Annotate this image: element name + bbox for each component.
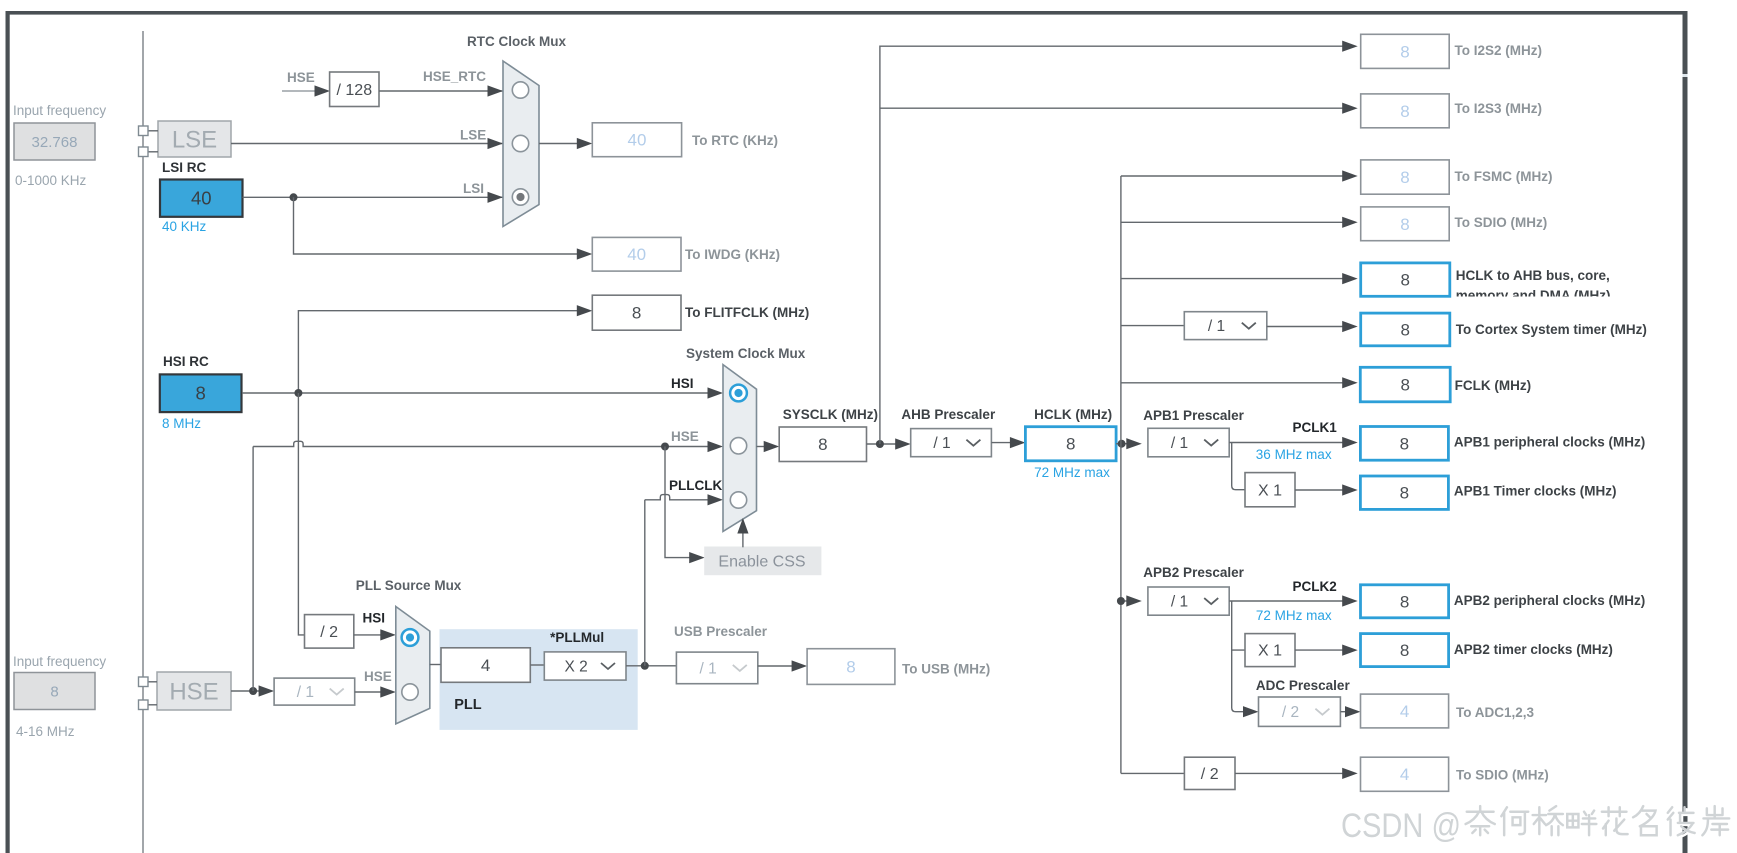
arrowhead: into SYSCLK box bbox=[764, 441, 780, 452]
svg-text:HSE: HSE bbox=[169, 678, 218, 705]
output box To USB value 8 bbox=[807, 649, 895, 685]
svg-text:HSE_RTC: HSE_RTC bbox=[423, 69, 486, 84]
svg-text:To SDIO (MHz): To SDIO (MHz) bbox=[1456, 768, 1549, 783]
arrowhead: HSI into system mux bbox=[708, 387, 724, 398]
svg-text:HSE: HSE bbox=[287, 70, 315, 85]
arrowhead: into HSE /1 dropdown bbox=[259, 685, 275, 696]
Enable CSS button bbox=[704, 547, 821, 576]
svg-text:Input frequency: Input frequency bbox=[13, 654, 106, 669]
arrowhead: HSI into PLL mux bbox=[380, 629, 396, 640]
label: HSE (top, feeds /128) bbox=[287, 70, 315, 85]
wire: PLL mux to PLLM box bbox=[430, 664, 441, 666]
frame: scrollbar notch on right border bbox=[1683, 74, 1688, 77]
dropdown: USB prescaler /1 (disabled) bbox=[676, 652, 757, 684]
arrowhead: into APB2 peripheral box bbox=[1342, 595, 1358, 606]
label: PCLK1 bbox=[1293, 420, 1338, 435]
junction: SYSCLK to I2S branch bbox=[876, 440, 884, 448]
svg-text:AHB Prescaler: AHB Prescaler bbox=[901, 407, 996, 422]
svg-text:PCLK1: PCLK1 bbox=[1293, 420, 1338, 435]
HSI RC box 8 bbox=[160, 374, 242, 412]
svg-text:72 MHz max: 72 MHz max bbox=[1256, 608, 1332, 623]
svg-text:HSE: HSE bbox=[671, 429, 699, 444]
arrowhead: into APB1 peripheral box bbox=[1342, 437, 1358, 448]
wire: checkbox stub 2 to LSE bbox=[148, 151, 158, 153]
svg-text:To USB (MHz): To USB (MHz) bbox=[902, 662, 990, 677]
wire: X1 to APB1 timer box bbox=[1295, 489, 1345, 491]
svg-text:8 MHz: 8 MHz bbox=[162, 416, 201, 431]
label: HSE (system mux input) bbox=[671, 429, 699, 444]
wire: checkbox stub 2 to HSE bbox=[148, 704, 157, 706]
label: 8 MHz bbox=[162, 416, 201, 431]
label: 36 MHz max bbox=[1256, 447, 1332, 462]
svg-text:ADC Prescaler: ADC Prescaler bbox=[1256, 678, 1351, 693]
svg-text:8: 8 bbox=[1401, 271, 1410, 290]
radio: LSI input (selected) bbox=[512, 189, 528, 205]
label: To I2S2 (MHz) bbox=[1455, 43, 1543, 58]
multiplier box X 1 (APB2) bbox=[1245, 634, 1295, 667]
radio: PLL HSE input bbox=[402, 684, 418, 700]
label: PLL Source Mux bbox=[356, 578, 462, 593]
svg-text:8: 8 bbox=[846, 658, 855, 677]
SYSCLK box 8 bbox=[779, 427, 866, 462]
svg-text:RTC Clock Mux: RTC Clock Mux bbox=[467, 34, 567, 49]
arrowhead: into To FSMC box bbox=[1342, 170, 1358, 181]
wire: HCLK to APB1 prescaler bbox=[1116, 443, 1129, 445]
svg-text:Enable CSS: Enable CSS bbox=[718, 554, 805, 571]
junction: HSE to CSS branch bbox=[661, 443, 669, 451]
arrowhead: into To ADC box bbox=[1345, 706, 1361, 717]
wire: HSE /1 to PLL mux bbox=[355, 691, 383, 693]
wire: PLLMul out to USB prescaler bbox=[626, 665, 676, 667]
arrowhead: LSI into RTC mux bbox=[488, 192, 504, 203]
svg-text:/ 1: / 1 bbox=[1171, 435, 1188, 452]
junction: HSE branch bbox=[249, 687, 257, 695]
svg-text:8: 8 bbox=[1400, 592, 1409, 611]
svg-text:8: 8 bbox=[1400, 42, 1409, 61]
wire: HSI branch up to FLITFCLK bbox=[298, 311, 579, 393]
wire: bus to FSMC bbox=[1121, 175, 1345, 177]
arrowhead: PLLCLK into system mux bbox=[708, 494, 724, 505]
svg-text:8: 8 bbox=[1401, 376, 1410, 395]
radio: system mux PLLCLK bbox=[730, 492, 746, 508]
output box APB1 peripheral value 8 bbox=[1360, 427, 1448, 461]
frame: top border bbox=[6, 11, 1687, 15]
wire: HSE stub into /128 bbox=[282, 90, 317, 92]
svg-text:HSI RC: HSI RC bbox=[163, 354, 209, 369]
label: APB1 peripheral clocks (MHz) bbox=[1454, 435, 1645, 450]
wire: HSE out to /1 prescaler bbox=[231, 690, 261, 692]
divider box /2 (SDIO) bbox=[1184, 757, 1235, 789]
PLLM value box 4 bbox=[441, 648, 530, 683]
svg-text:/ 1: / 1 bbox=[297, 684, 314, 701]
svg-text:PLL: PLL bbox=[454, 697, 482, 713]
arrowhead: into AHB prescaler bbox=[895, 438, 911, 449]
svg-text:PLLCLK: PLLCLK bbox=[669, 478, 722, 493]
LSE source box bbox=[158, 121, 231, 157]
label: PLL bbox=[454, 697, 482, 713]
label: To FLITFCLK (MHz) bbox=[685, 305, 809, 320]
label: Input frequency (bottom) bbox=[13, 654, 106, 669]
label: PLLCLK (system mux input) bbox=[669, 478, 722, 493]
arrowhead: into To USB box bbox=[792, 660, 808, 671]
wire: APB1 prescaler to peripheral box bbox=[1229, 442, 1345, 444]
radio: HSE_RTC input bbox=[512, 82, 528, 98]
dropdown: AHB prescaler /1 bbox=[911, 429, 992, 457]
arrowhead: into FCLK box bbox=[1342, 377, 1358, 388]
radio: system mux HSE bbox=[730, 438, 746, 454]
svg-text:40: 40 bbox=[627, 131, 646, 150]
wire: bus to /2 SDIO divider bbox=[1121, 772, 1185, 774]
svg-text:8: 8 bbox=[1401, 320, 1410, 339]
label: HSI (system mux input) bbox=[671, 376, 694, 391]
label: To SDIO (MHz) (top) bbox=[1455, 215, 1548, 230]
arrowhead: into HCLK box bbox=[1010, 437, 1026, 448]
output box APB1 timer value 8 bbox=[1360, 476, 1448, 509]
svg-text:8: 8 bbox=[1066, 435, 1075, 454]
dropdown: Cortex /1 bbox=[1184, 312, 1267, 340]
output box To FLITFCLK value 8 bbox=[592, 295, 681, 330]
label: To ADC1,2,3 bbox=[1456, 705, 1535, 720]
arrowhead: HSE into PLL mux bbox=[380, 686, 396, 697]
arrowhead: into Cortex timer box bbox=[1342, 321, 1358, 332]
label: APB2 Prescaler bbox=[1143, 565, 1244, 580]
output box To I2S3 value 8 bbox=[1361, 94, 1450, 128]
dropdown: APB2 prescaler /1 bbox=[1148, 587, 1229, 615]
wire: HSE branch up to system mux bbox=[253, 441, 710, 446]
svg-text:8: 8 bbox=[1400, 484, 1409, 503]
label: 40 KHz bbox=[162, 219, 207, 234]
arrowhead: LSE into RTC mux bbox=[488, 138, 504, 149]
arrowhead: into APB2 prescaler bbox=[1126, 595, 1142, 606]
svg-text:4: 4 bbox=[1400, 702, 1409, 721]
svg-text:To I2S3 (MHz): To I2S3 (MHz) bbox=[1455, 101, 1543, 116]
wire: checkbox stub 1 to LSE bbox=[148, 130, 158, 132]
frame: right border bbox=[1683, 11, 1688, 853]
wire: /2 to PLL mux bbox=[354, 634, 383, 636]
HSE source box bbox=[157, 672, 231, 710]
arrowhead: HSE into system mux bbox=[708, 441, 724, 452]
svg-text:X 1: X 1 bbox=[1258, 482, 1282, 499]
arrowhead: into /128 box bbox=[315, 85, 331, 96]
label: APB1 Prescaler bbox=[1143, 408, 1244, 423]
svg-text:72 MHz max: 72 MHz max bbox=[1034, 465, 1110, 480]
wire: branch to I2S3 bbox=[880, 107, 1345, 109]
label: USB Prescaler bbox=[674, 624, 768, 639]
svg-text:8: 8 bbox=[50, 683, 58, 700]
wire: USB prescaler to To USB box bbox=[758, 665, 794, 667]
wire: checkbox stub 1 to HSE bbox=[148, 681, 157, 683]
dropdown: ADC prescaler /2 (disabled) bbox=[1259, 697, 1341, 726]
label: System Clock Mux bbox=[686, 346, 806, 361]
svg-text:USB Prescaler: USB Prescaler bbox=[674, 624, 768, 639]
wire: LSI to RTC mux bbox=[243, 196, 504, 198]
svg-text:32.768: 32.768 bbox=[32, 134, 78, 151]
svg-text:LSI RC: LSI RC bbox=[162, 160, 207, 175]
label: To IWDG (KHz) bbox=[685, 247, 780, 262]
svg-text:To FSMC (MHz): To FSMC (MHz) bbox=[1455, 169, 1553, 184]
label: LSI RC bbox=[162, 160, 207, 175]
arrowhead: into Enable CSS bbox=[689, 552, 705, 563]
output box APB2 peripheral value 8 bbox=[1361, 585, 1449, 618]
wire: PLLM to PLLMul bbox=[530, 664, 544, 666]
svg-text:LSI: LSI bbox=[463, 181, 484, 196]
label: *PLLMul bbox=[550, 630, 604, 645]
svg-text:APB1 peripheral clocks (MHz): APB1 peripheral clocks (MHz) bbox=[1454, 435, 1645, 450]
wire: APB2 down to X1 and ADC bbox=[1232, 601, 1246, 712]
svg-text:/ 1: / 1 bbox=[1171, 594, 1188, 611]
svg-text:/ 2: / 2 bbox=[320, 624, 338, 641]
svg-text:8: 8 bbox=[1400, 215, 1409, 234]
arrowhead: into FLITFCLK box bbox=[577, 305, 593, 316]
label: RTC Clock Mux bbox=[467, 34, 567, 49]
svg-text:HCLK (MHz): HCLK (MHz) bbox=[1034, 407, 1112, 422]
label: FCLK (MHz) bbox=[1455, 378, 1531, 393]
output box To SDIO value 4 (bottom) bbox=[1361, 757, 1449, 791]
arrowhead: into To RTC box bbox=[577, 138, 593, 149]
dropdown: HSE /1 (disabled) bbox=[274, 678, 355, 705]
wire: RTC mux output bbox=[539, 143, 579, 145]
LSE checkbox 2 bbox=[139, 147, 149, 157]
left rail vertical line bbox=[142, 31, 144, 853]
svg-text:APB1 Prescaler: APB1 Prescaler bbox=[1143, 408, 1244, 423]
wire: bus to Cortex prescaler bbox=[1121, 325, 1184, 327]
label: APB1 Timer clocks (MHz) bbox=[1454, 484, 1617, 499]
junction: HSI branch bbox=[294, 389, 302, 397]
svg-text:36 MHz max: 36 MHz max bbox=[1256, 447, 1332, 462]
input frequency box 8 bbox=[14, 673, 95, 710]
wire: bus to HCLK AHB output bbox=[1121, 278, 1345, 280]
label: To USB (MHz) bbox=[902, 662, 990, 677]
label: HSI (PLL source) bbox=[363, 611, 386, 626]
svg-text:APB2 peripheral clocks (MHz): APB2 peripheral clocks (MHz) bbox=[1454, 593, 1645, 608]
svg-text:/ 1: / 1 bbox=[933, 435, 950, 452]
label: HSE_RTC bbox=[423, 69, 486, 84]
svg-text:To SDIO (MHz): To SDIO (MHz) bbox=[1455, 215, 1548, 230]
radio: LSE input bbox=[512, 135, 528, 151]
label: APB2 timer clocks (MHz) bbox=[1454, 642, 1613, 657]
svg-text:/ 2: / 2 bbox=[1201, 766, 1219, 783]
label: HSI RC bbox=[163, 354, 209, 369]
junction: LSI branch bbox=[290, 193, 298, 201]
wire: HSI branch down to PLL /2 bbox=[298, 393, 304, 635]
label: ADC Prescaler bbox=[1256, 678, 1351, 693]
svg-text:8: 8 bbox=[632, 304, 641, 323]
divider box /128 bbox=[330, 72, 379, 107]
wire: HCLK distribution bus bbox=[1120, 176, 1122, 773]
label: 0-1000 KHz bbox=[15, 173, 87, 188]
svg-text:APB1 Timer clocks (MHz): APB1 Timer clocks (MHz) bbox=[1454, 484, 1617, 499]
svg-text:8: 8 bbox=[818, 435, 827, 454]
label: 72 MHz max (APB2) bbox=[1256, 608, 1332, 623]
svg-text:/ 2: / 2 bbox=[1282, 704, 1299, 721]
wire: Cortex prescaler to timer box bbox=[1267, 326, 1345, 328]
arrowhead: into APB1 timer box bbox=[1342, 484, 1358, 495]
svg-text:PLL Source Mux: PLL Source Mux bbox=[356, 578, 462, 593]
label: HCLK to AHB bus core memory and DMA (clipped) bbox=[1456, 268, 1611, 303]
system clock mux body bbox=[723, 365, 757, 532]
HCLK box 8 bbox=[1025, 427, 1116, 461]
output box APB2 timer value 8 bbox=[1361, 634, 1449, 667]
dropdown: APB1 prescaler /1 bbox=[1148, 428, 1229, 457]
wire: /128 to RTC mux bbox=[379, 90, 503, 92]
svg-text:/ 1: / 1 bbox=[699, 660, 716, 677]
output box To IWDG value 40 bbox=[592, 237, 681, 271]
wire: system mux output to SYSCLK bbox=[757, 446, 767, 448]
svg-text:8: 8 bbox=[1400, 434, 1409, 453]
RTC clock mux body bbox=[503, 61, 539, 227]
wire: ADC prescaler to ADC box bbox=[1340, 711, 1347, 713]
dropdown: PLLMul X 2 bbox=[544, 652, 626, 680]
svg-text:HSE: HSE bbox=[364, 669, 392, 684]
svg-text:SYSCLK (MHz): SYSCLK (MHz) bbox=[783, 407, 878, 422]
arrowhead: into To SDIO box (bottom) bbox=[1342, 768, 1358, 779]
watermark: CSDN @author bbox=[1341, 806, 1731, 847]
svg-text:APB2 timer clocks (MHz): APB2 timer clocks (MHz) bbox=[1454, 642, 1613, 657]
label: APB2 peripheral clocks (MHz) bbox=[1454, 593, 1645, 608]
PLL source mux body bbox=[396, 607, 430, 724]
label: Input frequency (top) bbox=[13, 103, 106, 118]
svg-text:To Cortex System timer (MHz): To Cortex System timer (MHz) bbox=[1456, 322, 1647, 337]
output box To SDIO value 8 (top) bbox=[1361, 207, 1450, 241]
label: PCLK2 bbox=[1293, 579, 1337, 594]
svg-text:HSI: HSI bbox=[671, 376, 694, 391]
svg-text:LSE: LSE bbox=[460, 128, 486, 143]
svg-text:8: 8 bbox=[1400, 102, 1409, 121]
wire: CSS branch down bbox=[665, 447, 692, 558]
label: SYSCLK (MHz) bbox=[783, 407, 878, 422]
output box To ADC value 4 bbox=[1361, 694, 1449, 728]
LSE checkbox 1 bbox=[139, 126, 149, 136]
output box HCLK to AHB value 8 bbox=[1361, 263, 1450, 296]
svg-text:4: 4 bbox=[1400, 765, 1409, 784]
label: LSE (mux input) bbox=[460, 128, 486, 143]
svg-text:*PLLMul: *PLLMul bbox=[550, 630, 604, 645]
wire: APB1 down to X1 multiplier bbox=[1232, 443, 1245, 490]
arrowhead: into APB2 timer box bbox=[1342, 645, 1358, 656]
svg-text:40: 40 bbox=[191, 188, 212, 209]
wire: AHB prescaler to HCLK bbox=[991, 442, 1012, 444]
wire: I2S vertical branch bbox=[880, 46, 1345, 444]
svg-text:4: 4 bbox=[481, 656, 490, 675]
svg-text:40: 40 bbox=[627, 245, 646, 264]
svg-text:4-16 MHz: 4-16 MHz bbox=[16, 724, 75, 739]
radio: PLL HSI input (selected) bbox=[402, 629, 419, 646]
svg-text:To RTC (KHz): To RTC (KHz) bbox=[692, 133, 778, 148]
svg-text:HCLK to AHB bus, core,: HCLK to AHB bus, core, bbox=[1456, 268, 1610, 283]
radio: system mux HSI (selected) bbox=[730, 385, 747, 402]
svg-text:0-1000 KHz: 0-1000 KHz bbox=[15, 173, 87, 188]
label: 4-16 MHz bbox=[16, 724, 75, 739]
svg-text:8: 8 bbox=[1400, 641, 1409, 660]
wire: bus to FCLK bbox=[1121, 382, 1345, 384]
output box To Cortex timer value 8 bbox=[1361, 313, 1450, 346]
arrowhead: CSS up into system mux bbox=[737, 518, 748, 534]
LSI RC box 40 bbox=[160, 180, 243, 217]
wire: APB2 prescaler to peripheral box bbox=[1229, 600, 1345, 602]
wire: bus to SDIO (top) bbox=[1121, 221, 1345, 223]
label: LSI (mux input) bbox=[463, 181, 484, 196]
label: To FSMC (MHz) bbox=[1455, 169, 1553, 184]
multiplier box X 1 (APB1) bbox=[1245, 473, 1295, 507]
wire: CSS arrow stem up into mux bbox=[742, 531, 744, 547]
output box To RTC value 40 bbox=[592, 123, 681, 157]
svg-text:8: 8 bbox=[196, 383, 206, 404]
arrowhead: into To I2S3 box bbox=[1342, 103, 1358, 114]
wire: SYSCLK to AHB prescaler bbox=[867, 443, 898, 445]
svg-text:To FLITFCLK (MHz): To FLITFCLK (MHz) bbox=[685, 305, 809, 320]
svg-text:CSDN @: CSDN @ bbox=[1341, 807, 1461, 845]
svg-text:To I2S2 (MHz): To I2S2 (MHz) bbox=[1455, 43, 1543, 58]
svg-text:8: 8 bbox=[1400, 168, 1409, 187]
divider box /2 (PLL HSI) bbox=[305, 615, 354, 649]
label: To Cortex System timer (MHz) bbox=[1456, 322, 1647, 337]
wire: PLLCLK up to system mux bbox=[644, 500, 646, 666]
svg-text:/ 1: / 1 bbox=[1208, 318, 1225, 335]
junction: APB2 tap bbox=[1117, 597, 1125, 605]
label: To SDIO (MHz) (bottom) bbox=[1456, 768, 1549, 783]
arrowhead: into To SDIO box (top) bbox=[1342, 217, 1358, 228]
wire: LSE to RTC mux bbox=[231, 143, 503, 145]
wire: HSI to system clock mux bbox=[242, 392, 710, 394]
svg-text:APB2 Prescaler: APB2 Prescaler bbox=[1143, 565, 1244, 580]
output box To I2S2 value 8 bbox=[1361, 34, 1450, 68]
svg-text:System Clock Mux: System Clock Mux bbox=[686, 346, 806, 361]
PLL region background bbox=[440, 629, 638, 730]
arrowhead: into ADC prescaler bbox=[1243, 706, 1259, 717]
svg-text:FCLK (MHz): FCLK (MHz) bbox=[1455, 378, 1531, 393]
label: HCLK (MHz) bbox=[1034, 407, 1112, 422]
frame: left border bbox=[6, 11, 10, 853]
arrowhead: HSE_RTC into RTC mux bbox=[488, 85, 504, 96]
svg-text:/ 128: / 128 bbox=[337, 82, 373, 99]
wire: /2 to To SDIO box bbox=[1235, 772, 1345, 774]
HSE checkbox 2 bbox=[139, 700, 149, 710]
input frequency box 32.768 bbox=[14, 123, 95, 160]
svg-text:memory and DMA (MHz): memory and DMA (MHz) bbox=[1456, 288, 1611, 303]
label: To I2S3 (MHz) bbox=[1455, 101, 1543, 116]
output box To FSMC value 8 bbox=[1361, 160, 1450, 194]
svg-text:X 1: X 1 bbox=[1258, 643, 1282, 660]
svg-text:X 2: X 2 bbox=[565, 659, 588, 676]
output box FCLK value 8 bbox=[1360, 367, 1450, 402]
arrowhead: into APB1 prescaler bbox=[1126, 438, 1142, 449]
label: HSE (PLL source) bbox=[364, 669, 392, 684]
arrowhead: into HCLK to AHB box bbox=[1342, 273, 1358, 284]
svg-text:40 KHz: 40 KHz bbox=[162, 219, 207, 234]
junction: HCLK bus bbox=[1118, 440, 1126, 448]
junction: PLLCLK branch bbox=[641, 662, 649, 670]
svg-text:To ADC1,2,3: To ADC1,2,3 bbox=[1456, 705, 1535, 720]
wire: LSI branch down to IWDG bbox=[294, 197, 580, 254]
wire: X1 to APB2 timer box bbox=[1295, 649, 1345, 651]
svg-text:HSI: HSI bbox=[363, 611, 386, 626]
label: 72 MHz max (HCLK) bbox=[1034, 465, 1110, 480]
arrowhead: into IWDG box bbox=[577, 248, 593, 259]
wire: bus to APB2 prescaler bbox=[1121, 600, 1129, 602]
label: AHB Prescaler bbox=[901, 407, 996, 422]
HSE checkbox 1 bbox=[139, 677, 149, 687]
svg-text:LSE: LSE bbox=[172, 126, 217, 153]
svg-text:Input frequency: Input frequency bbox=[13, 103, 106, 118]
svg-text:To IWDG (KHz): To IWDG (KHz) bbox=[685, 247, 780, 262]
arrowhead: into To I2S2 box bbox=[1342, 41, 1358, 52]
svg-text:PCLK2: PCLK2 bbox=[1293, 579, 1337, 594]
label: To RTC (KHz) bbox=[692, 133, 778, 148]
